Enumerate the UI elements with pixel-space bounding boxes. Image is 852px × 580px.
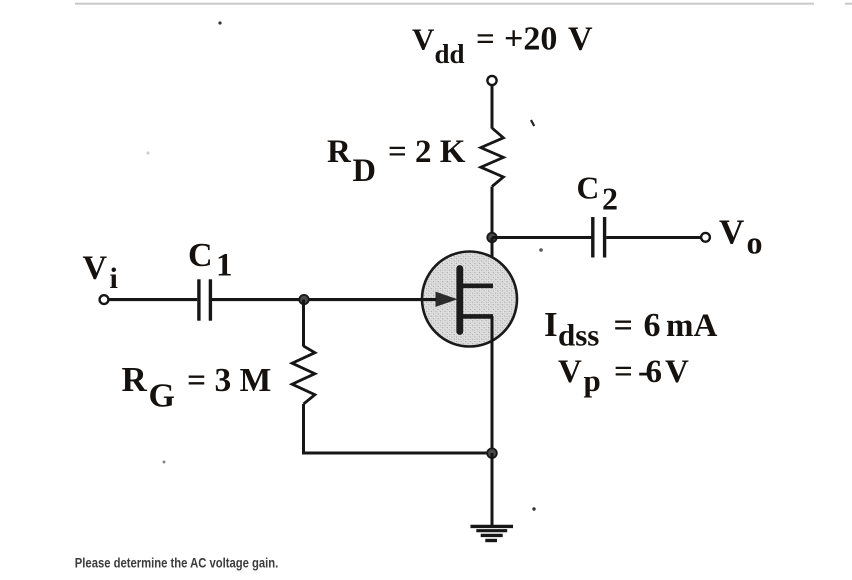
node drain junction [487,233,496,242]
label RD = 2 K [327,134,466,189]
svg-text:dd: dd [435,39,465,69]
terminal Vi [100,295,109,304]
wire RG to bottom corner [302,404,305,453]
label RG = 3 M [122,360,272,415]
transistor Q1 (JFET) [422,252,517,347]
wire gate node to RG [302,300,305,347]
wire drain node to JFET drain [491,238,494,289]
capacitor C1 [199,279,211,320]
svg-text:dss: dss [558,318,599,353]
node gate junction [299,295,308,304]
svg-text:R: R [327,134,352,170]
svg-text:o: o [747,225,763,261]
capacitor C2 [593,217,605,258]
svg-text:=: = [614,354,633,390]
label Idss = 6 mA [544,305,717,353]
svg-text:R: R [122,360,148,399]
svg-text:2: 2 [602,181,618,217]
label Vp = -6 V [558,354,689,398]
wire C1 to JFET gate [212,298,436,301]
svg-text:I: I [544,305,558,344]
wire RD to drain node [491,187,494,238]
node source junction [487,448,497,458]
label Vi [83,250,118,295]
svg-text:D: D [353,153,376,189]
svg-text:6: 6 [644,307,661,344]
resistor RD [481,128,504,187]
wire C2 to Vo terminal [606,236,701,239]
resistor RG [292,346,315,404]
svg-text:+20: +20 [504,21,557,58]
wire drain node to C2 [492,236,592,239]
svg-text:V: V [558,354,582,390]
svg-text:C: C [577,171,600,206]
svg-text:C: C [188,237,213,274]
svg-text:=: = [476,22,495,58]
ground [471,526,514,540]
svg-text:mA: mA [666,308,717,344]
wire source node to ground [491,453,494,527]
svg-text:V: V [665,354,689,390]
svg-text:V: V [412,22,435,57]
label C1 [188,237,233,284]
label Vdd = +20 V [412,21,593,70]
svg-text:i: i [110,262,118,295]
wire Vdd terminal to RD [491,85,494,128]
svg-text:= 2 K: = 2 K [388,134,466,170]
svg-text:1: 1 [216,248,233,284]
svg-text:G: G [149,378,175,415]
terminal Vo [701,233,710,242]
svg-text:=: = [614,307,633,344]
svg-text:p: p [584,363,601,398]
svg-text:V: V [83,250,108,287]
svg-text:6: 6 [646,354,663,390]
terminal Vdd [487,76,496,85]
svg-text:= 3 M: = 3 M [187,362,271,399]
label Vo [719,213,763,261]
wire Vi to C1 [108,298,197,301]
label C2 [577,171,619,217]
svg-text:V: V [719,213,744,252]
wire bottom run to source node [302,451,492,454]
svg-text:Please determine the AC voltag: Please determine the AC voltage gain. [75,556,278,572]
wire JFET source to source node [491,316,494,453]
svg-text:V: V [568,21,593,58]
